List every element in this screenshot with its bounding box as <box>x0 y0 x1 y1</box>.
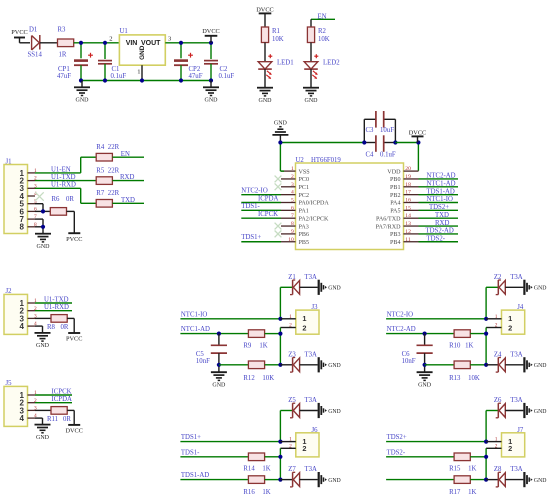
svg-text:1K: 1K <box>468 489 476 496</box>
svg-text:10uF: 10uF <box>380 127 394 134</box>
svg-text:Z3: Z3 <box>288 351 296 358</box>
svg-text:GND: GND <box>259 98 273 104</box>
svg-text:2: 2 <box>302 323 306 332</box>
capacitor CP1 47uF <box>57 53 93 81</box>
wire ICPCK net (J5) <box>35 389 72 396</box>
svg-text:T3A: T3A <box>510 351 523 358</box>
regulator U1 <box>109 28 172 75</box>
svg-text:PA7/RXD: PA7/RXD <box>376 224 401 230</box>
resistor R9 1K <box>243 330 267 350</box>
wire U1-TXD net <box>35 174 96 181</box>
svg-text:TDS2+: TDS2+ <box>387 434 407 441</box>
svg-text:3: 3 <box>291 182 294 188</box>
wire NTC2-IO net (U2 pin4) <box>241 188 281 195</box>
TVS diode Z2 T3A <box>494 274 524 295</box>
node <box>484 363 488 367</box>
ground <box>524 472 546 487</box>
svg-text:T3A: T3A <box>305 351 318 358</box>
ground <box>74 81 90 104</box>
svg-text:R11: R11 <box>47 416 58 423</box>
svg-text:PA6/TXD: PA6/TXD <box>376 216 401 222</box>
ground <box>303 88 319 104</box>
svg-text:2: 2 <box>109 35 112 42</box>
svg-text:TDS1+: TDS1+ <box>181 434 201 441</box>
svg-text:GND: GND <box>534 409 547 415</box>
node <box>41 225 45 229</box>
svg-text:10K: 10K <box>468 375 480 382</box>
svg-text:1: 1 <box>289 314 292 320</box>
svg-text:0.1uF: 0.1uF <box>111 73 127 80</box>
svg-text:ICPCK: ICPCK <box>258 211 278 218</box>
wire <box>265 448 281 479</box>
svg-text:GND: GND <box>37 244 51 250</box>
node <box>278 455 282 459</box>
connector J6 <box>280 427 319 457</box>
svg-text:R14: R14 <box>243 466 255 473</box>
node <box>416 140 420 144</box>
svg-text:10nF: 10nF <box>402 358 416 365</box>
wire TXD net <box>112 197 144 204</box>
wire ICPDA net (U2 pin5) <box>241 195 281 202</box>
svg-text:C5: C5 <box>196 351 205 358</box>
wire U1-RXD net <box>35 182 96 204</box>
svg-text:J3: J3 <box>312 304 319 311</box>
wire <box>470 328 486 365</box>
svg-text:C1: C1 <box>112 66 120 73</box>
svg-text:GND: GND <box>305 98 319 104</box>
wire U1 pin1 to rail <box>141 65 143 80</box>
resistor R12 10K <box>219 361 281 382</box>
ground <box>524 357 546 372</box>
svg-text:PA1: PA1 <box>299 209 309 215</box>
svg-text:PB3: PB3 <box>390 232 401 238</box>
svg-text:Z5: Z5 <box>288 397 296 404</box>
svg-text:GND: GND <box>328 478 341 484</box>
wire EN net <box>112 151 144 158</box>
svg-text:10K: 10K <box>318 36 330 43</box>
svg-text:9: 9 <box>291 229 294 235</box>
svg-text:CP1: CP1 <box>58 66 70 73</box>
svg-text:PB5: PB5 <box>299 240 310 246</box>
svg-text:10K: 10K <box>272 36 284 43</box>
svg-text:19: 19 <box>405 174 411 180</box>
svg-text:J7: J7 <box>517 427 524 434</box>
node <box>278 140 282 144</box>
svg-text:GND: GND <box>418 382 432 388</box>
resistor R10 1K <box>449 330 473 350</box>
wire TDS1-AD net (U2 pin17) <box>419 188 459 195</box>
wire TXD net (U2 pin14) <box>419 212 459 219</box>
svg-text:R13: R13 <box>449 375 461 382</box>
svg-text:SS14: SS14 <box>28 51 43 58</box>
node rail junctions <box>79 78 213 82</box>
MCU U2 HT66F019 <box>281 157 419 250</box>
svg-text:PVCC: PVCC <box>66 336 82 343</box>
node NTC1-IO junction <box>278 317 282 321</box>
wire VIN net <box>74 43 120 59</box>
TVS diode Z1 T3A <box>288 274 318 295</box>
svg-text:TDS2-: TDS2- <box>387 449 406 456</box>
svg-text:2: 2 <box>495 323 498 329</box>
power symbol DVCC (LED1) <box>256 6 274 27</box>
svg-text:J4: J4 <box>517 304 524 311</box>
capacitor C3 10uF <box>364 111 395 143</box>
svg-text:22R: 22R <box>108 167 120 174</box>
svg-text:1: 1 <box>508 314 512 323</box>
svg-text:1: 1 <box>302 314 306 323</box>
wire <box>265 328 281 365</box>
node <box>278 363 282 367</box>
wire TDS1- net (U2 pin6) <box>241 203 281 210</box>
svg-text:PC0: PC0 <box>299 177 310 183</box>
svg-text:NTC2-IO: NTC2-IO <box>241 188 268 195</box>
resistor R5 22R <box>96 167 119 184</box>
svg-text:NTC2-AD: NTC2-AD <box>387 326 416 333</box>
svg-text:R12: R12 <box>243 375 255 382</box>
svg-text:0R: 0R <box>63 416 71 423</box>
svg-text:2: 2 <box>302 444 306 453</box>
svg-text:NTC2-IO: NTC2-IO <box>387 311 414 318</box>
svg-text:8: 8 <box>291 221 294 227</box>
node <box>423 363 427 367</box>
wire <box>265 43 272 62</box>
svg-text:PB2: PB2 <box>390 193 401 199</box>
wire TDS2- net <box>386 449 454 456</box>
ground <box>417 372 433 388</box>
svg-text:R9: R9 <box>243 343 252 350</box>
svg-text:Z8: Z8 <box>494 466 502 473</box>
svg-text:10: 10 <box>288 237 294 243</box>
svg-text:4: 4 <box>20 414 25 423</box>
svg-text:C4: C4 <box>366 151 375 158</box>
svg-text:GND: GND <box>36 435 50 441</box>
svg-text:GND: GND <box>328 409 341 415</box>
node <box>217 363 221 367</box>
TVS diode Z6 T3A <box>494 397 524 418</box>
svg-text:17: 17 <box>405 190 411 196</box>
resistor R11 0R <box>35 407 74 425</box>
wire TDS2- net (U2 pin11) <box>419 235 459 242</box>
wire TDS2-AD net (U2 pin12) <box>419 228 459 235</box>
svg-text:R15: R15 <box>449 466 461 473</box>
TVS diode Z8 T3A <box>486 466 523 487</box>
svg-text:Z2: Z2 <box>494 274 502 281</box>
svg-text:2: 2 <box>508 323 512 332</box>
wire TDS1-AD net <box>180 472 248 479</box>
svg-text:1: 1 <box>495 437 498 443</box>
svg-text:CP2: CP2 <box>189 66 201 73</box>
svg-text:10nF: 10nF <box>196 358 210 365</box>
capacitor C2 0.1uF <box>204 61 234 81</box>
svg-text:VIN: VIN <box>126 40 138 47</box>
node VOUT junctions <box>179 41 213 45</box>
wire NTC2-AD net <box>386 326 454 333</box>
svg-text:R6: R6 <box>52 196 61 203</box>
node <box>278 478 282 482</box>
svg-text:VDD: VDD <box>387 169 401 175</box>
svg-text:T3A: T3A <box>305 397 318 404</box>
svg-text:PVCC: PVCC <box>66 236 82 243</box>
resistor R15 1K <box>449 453 476 473</box>
svg-text:0.1uF: 0.1uF <box>380 151 396 158</box>
ground <box>319 280 341 295</box>
capacitor CP2 47uF <box>174 53 203 81</box>
svg-text:0.1uF: 0.1uF <box>219 73 235 80</box>
svg-text:Z4: Z4 <box>494 351 502 358</box>
ground <box>319 403 341 418</box>
svg-text:R1: R1 <box>272 28 280 35</box>
TVS diode Z7 T3A <box>280 466 317 487</box>
svg-text:J5: J5 <box>6 380 13 387</box>
svg-text:PB6: PB6 <box>299 232 310 238</box>
wire TDS1+ net (U2 pin10) <box>241 234 281 242</box>
capacitor C6 10nF <box>402 334 433 372</box>
ground <box>35 425 51 441</box>
svg-text:PA3: PA3 <box>299 224 309 230</box>
wire J1 pins 7-8 <box>35 219 43 233</box>
wire <box>470 448 486 479</box>
svg-text:PB0: PB0 <box>390 177 401 183</box>
wire U1-TXD net (J2) <box>35 297 72 304</box>
svg-text:DVCC: DVCC <box>202 28 220 35</box>
svg-text:PA2/ICPCK: PA2/ICPCK <box>299 216 330 222</box>
svg-text:C6: C6 <box>402 351 411 358</box>
svg-text:J2: J2 <box>6 288 13 295</box>
svg-text:T3A: T3A <box>305 466 318 473</box>
no connect U2 pins 2,3,8,9 <box>275 176 282 238</box>
ground <box>257 88 273 104</box>
svg-text:4: 4 <box>20 322 25 331</box>
svg-text:20: 20 <box>405 166 411 172</box>
ground <box>319 357 341 372</box>
node VIN junctions <box>79 41 107 45</box>
svg-text:GND: GND <box>328 363 341 369</box>
wire <box>264 69 266 88</box>
svg-text:12: 12 <box>405 229 411 235</box>
power symbol PVCC <box>66 233 82 243</box>
wire to PVCC <box>67 211 75 233</box>
wire <box>20 42 31 44</box>
svg-text:T3A: T3A <box>510 397 523 404</box>
capacitor C5 10nF <box>196 334 227 372</box>
svg-text:GND: GND <box>139 45 146 60</box>
wire <box>310 69 312 88</box>
svg-text:16: 16 <box>405 198 411 204</box>
power symbol PVCC input <box>11 29 27 43</box>
resistor R17 1K <box>449 476 486 496</box>
resistor R16 1K <box>243 476 280 496</box>
node <box>423 332 489 336</box>
svg-text:C2: C2 <box>220 66 229 73</box>
svg-text:DVCC: DVCC <box>409 129 427 136</box>
LED2 <box>304 60 340 79</box>
wire VOUT net <box>165 43 211 59</box>
svg-text:8: 8 <box>20 223 25 232</box>
no connect J1 pin4 <box>35 192 43 200</box>
wire ICPCK net (U2 pin7) <box>241 211 281 218</box>
wire <box>311 43 318 62</box>
svg-text:2: 2 <box>291 174 294 180</box>
svg-text:18: 18 <box>405 182 411 188</box>
wire ICPDA net (J5) <box>35 396 72 403</box>
svg-text:1: 1 <box>289 437 292 443</box>
resistor R8 0R <box>35 315 74 333</box>
capacitor C4 0.1uF <box>364 135 396 158</box>
wire GND to caps <box>280 142 364 144</box>
node TDS1+ junction <box>278 440 282 444</box>
TVS diode Z5 T3A <box>288 397 318 418</box>
svg-text:2: 2 <box>289 323 292 329</box>
wire NTC1-AD net <box>180 326 248 333</box>
svg-text:Z6: Z6 <box>494 397 502 404</box>
svg-text:Z1: Z1 <box>288 274 296 281</box>
ground <box>35 333 51 349</box>
node <box>484 478 488 482</box>
node NTC2-IO junction <box>484 317 488 321</box>
svg-text:R3: R3 <box>58 27 67 34</box>
wire J2 pin4 to ground <box>35 326 43 333</box>
svg-text:J6: J6 <box>312 427 319 434</box>
svg-text:1R: 1R <box>59 51 67 58</box>
wire VSS to ground <box>280 143 284 172</box>
svg-text:DVCC: DVCC <box>256 6 274 13</box>
svg-text:T3A: T3A <box>510 274 523 281</box>
wire U1-RXD net (J2) <box>35 304 72 311</box>
svg-text:47uF: 47uF <box>57 73 71 80</box>
svg-text:PC2: PC2 <box>299 193 310 199</box>
svg-text:2: 2 <box>508 444 512 453</box>
power symbol DVCC (U2) <box>409 129 427 142</box>
svg-text:15: 15 <box>405 205 411 211</box>
wire U1-EN net <box>35 157 96 173</box>
svg-text:U2: U2 <box>296 157 305 164</box>
connector J1 <box>4 158 37 233</box>
node <box>362 140 397 144</box>
power symbol PVCC (J2) <box>66 333 82 343</box>
svg-text:HT66F019: HT66F019 <box>311 157 341 164</box>
resistor R4 22R <box>96 144 119 161</box>
LED1 <box>258 60 293 79</box>
svg-text:2: 2 <box>289 443 292 449</box>
svg-text:TDS1-: TDS1- <box>181 449 200 456</box>
svg-text:PVCC: PVCC <box>11 29 27 36</box>
TVS diode Z3 T3A <box>280 351 317 372</box>
wire RXD net <box>112 174 144 181</box>
wire TDS1- net <box>180 449 248 456</box>
svg-text:D1: D1 <box>29 27 37 34</box>
svg-text:11: 11 <box>405 237 411 243</box>
svg-text:1K: 1K <box>262 466 270 473</box>
svg-text:GND: GND <box>36 343 50 349</box>
wire NTC1-IO net (U2 pin16) <box>419 196 459 203</box>
svg-text:0R: 0R <box>61 324 69 331</box>
svg-text:6: 6 <box>291 205 294 211</box>
resistor R6 0R <box>50 196 74 215</box>
svg-text:14: 14 <box>405 213 411 219</box>
power symbol DVCC (J5) <box>65 425 83 435</box>
svg-text:1K: 1K <box>259 343 267 350</box>
svg-text:R4: R4 <box>96 144 105 151</box>
resistor R13 10K <box>425 361 487 382</box>
TVS diode Z4 T3A <box>486 351 523 372</box>
svg-text:ICPDA: ICPDA <box>258 195 278 202</box>
svg-text:NTC1-IO: NTC1-IO <box>181 311 208 318</box>
wire J5 pin4 to ground <box>35 418 43 424</box>
power symbol DVCC <box>202 28 220 43</box>
resistor R7 22R <box>96 190 119 207</box>
wire TDS2+ net (U2 pin15) <box>419 204 459 211</box>
svg-text:TDS1-AD: TDS1-AD <box>181 472 209 479</box>
svg-text:R2: R2 <box>318 28 327 35</box>
svg-text:C3: C3 <box>366 127 375 134</box>
svg-text:PC1: PC1 <box>299 185 310 191</box>
svg-text:PA4: PA4 <box>390 201 400 207</box>
svg-text:T3A: T3A <box>510 466 523 473</box>
node <box>484 455 488 459</box>
node <box>217 332 283 336</box>
connector J4 <box>486 304 525 334</box>
svg-text:GND: GND <box>76 98 90 104</box>
wire EN net <box>311 13 335 27</box>
wire NTC1-AD net (U2 pin18) <box>419 181 459 188</box>
svg-text:1K: 1K <box>465 343 473 350</box>
svg-text:DVCC: DVCC <box>65 428 83 435</box>
capacitor C1 0.1uF <box>98 61 126 81</box>
ground (above U2) <box>272 121 288 143</box>
connector J3 <box>280 304 319 334</box>
svg-text:PB4: PB4 <box>390 240 401 246</box>
svg-text:J1: J1 <box>6 158 12 165</box>
ground <box>203 81 219 104</box>
svg-text:1: 1 <box>495 314 498 320</box>
svg-text:LED1: LED1 <box>277 60 294 67</box>
svg-text:GND: GND <box>534 363 547 369</box>
svg-text:TDS1+: TDS1+ <box>241 234 261 241</box>
svg-text:1K: 1K <box>468 466 476 473</box>
svg-text:R5: R5 <box>96 167 105 174</box>
svg-text:GND: GND <box>212 382 226 388</box>
ground <box>524 280 546 295</box>
connector J7 <box>486 427 525 457</box>
svg-text:NTC1-AD: NTC1-AD <box>181 326 210 333</box>
svg-text:7: 7 <box>291 213 294 219</box>
svg-text:U1: U1 <box>120 28 128 35</box>
wire <box>40 42 58 44</box>
svg-text:4: 4 <box>291 190 294 196</box>
resistor R1 10K <box>261 27 283 43</box>
svg-text:22R: 22R <box>108 144 120 151</box>
svg-text:GND: GND <box>205 98 219 104</box>
wire NTC2-AD net (U2 pin19) <box>419 173 459 180</box>
svg-text:2: 2 <box>495 443 498 449</box>
svg-text:PB1: PB1 <box>390 185 401 191</box>
wire DVCC <box>395 143 418 171</box>
svg-text:T3A: T3A <box>305 274 318 281</box>
svg-text:VSS: VSS <box>299 169 311 175</box>
resistor R3 1R <box>58 27 74 59</box>
svg-text:R17: R17 <box>449 489 461 496</box>
svg-text:GND: GND <box>534 478 547 484</box>
wire NTC2-IO net <box>386 287 498 319</box>
ground <box>319 472 341 487</box>
diode D1 SS14 <box>28 27 43 59</box>
wire TDS1+ net <box>180 411 292 442</box>
node <box>41 209 45 213</box>
ground <box>35 234 51 250</box>
node TDS2+ junction <box>484 440 488 444</box>
ground <box>211 372 227 388</box>
svg-text:0R: 0R <box>66 196 74 203</box>
